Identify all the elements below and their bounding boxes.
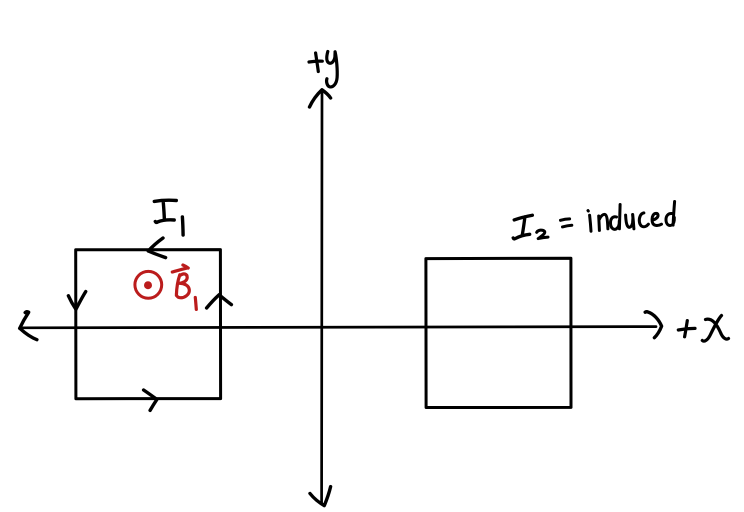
current arrow I1, left side (pointing down) [68, 292, 85, 310]
x-axis right arrowhead [645, 312, 661, 338]
B-field out-of-page symbol (red circle with dot) [135, 271, 162, 298]
label +y [309, 53, 322, 72]
current arrow I1, bottom side (pointing right) [144, 390, 157, 410]
label B1 vector (red) [172, 265, 188, 272]
x-axis [21, 327, 656, 328]
label +x [678, 321, 695, 337]
y-axis [320, 92, 323, 504]
current arrow I1, top side (pointing left) [148, 238, 165, 258]
label I1 [154, 200, 176, 222]
x-axis left arrowhead [20, 312, 37, 340]
loop 1 (left square, current-carrying) [76, 250, 221, 399]
loop 2 (right square, induced current) [426, 258, 571, 407]
y-axis top arrowhead [310, 90, 331, 107]
y-axis bottom arrowhead [310, 487, 331, 506]
current arrow I1, right side (pointing up) [207, 295, 232, 308]
label I2 = induced [513, 215, 532, 239]
